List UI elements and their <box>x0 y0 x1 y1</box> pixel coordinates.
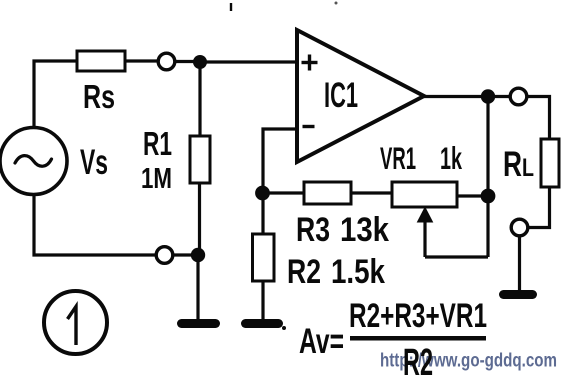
svg-text:13k: 13k <box>340 211 389 249</box>
wire: terminal to node B <box>173 253 198 256</box>
wire: node C to output terminal <box>488 95 510 98</box>
svg-text:VR1: VR1 <box>380 140 416 176</box>
wire: Vs top to Rs left <box>34 61 79 128</box>
svg-text:R2+R3+VR1: R2+R3+VR1 <box>349 297 487 335</box>
svg-text:Vs: Vs <box>80 143 108 182</box>
terminal: output bottom (open circle) <box>511 219 528 236</box>
wire: op-amp output to node C <box>424 95 488 98</box>
formula numerator: R2+R3+VR1 <box>349 297 487 335</box>
resistor R3 <box>304 182 351 204</box>
wire: terminal to node A <box>175 60 200 63</box>
scan speck (near Av) <box>282 326 286 330</box>
formula fraction bar <box>350 336 486 341</box>
wire: node A down to R1 <box>198 62 201 137</box>
label 1M (value of R1) <box>141 163 172 195</box>
source Vs <box>0 128 67 195</box>
VR1 wiper arrow <box>418 208 433 258</box>
svg-text:Rs: Rs <box>83 78 115 115</box>
wire: wiper return to output net <box>425 255 488 258</box>
ground (under R2) <box>246 319 279 328</box>
resistor R2 <box>253 234 275 281</box>
watermark http://www.go-gddq.com <box>380 351 557 372</box>
resistor Rs <box>77 51 125 71</box>
node B (junction dot, ground net) <box>191 248 205 262</box>
formula denominator: R2 <box>403 342 433 377</box>
wire: R2 to ground <box>261 281 264 320</box>
terminal: bottom input (open circle) <box>156 247 173 264</box>
pin: - (inverting input) <box>303 125 315 128</box>
wire: lower output terminal to ground <box>518 236 521 291</box>
resistor RL <box>541 139 559 187</box>
resistor R1 <box>190 136 210 183</box>
svg-text:L: L <box>522 154 534 182</box>
wire: RL bottom to lower output terminal <box>528 187 550 228</box>
svg-text:R2: R2 <box>403 342 433 377</box>
svg-text:IC1: IC1 <box>324 76 358 115</box>
figure number 1 (circled) <box>44 291 107 354</box>
node D (feedback junction dot) <box>255 186 270 201</box>
wire: node A to op-amp + input <box>200 60 297 63</box>
wire: VR1 right terminal to node E <box>457 194 488 197</box>
wire: output net vertical (node C down to wiper return) <box>486 97 489 258</box>
scan speck (top tick) <box>230 3 232 11</box>
node C (output junction dot) <box>481 89 495 103</box>
label RL <box>503 145 534 184</box>
wire: node D to R3 <box>263 191 305 194</box>
svg-text:Av=: Av= <box>299 322 344 361</box>
label R2 <box>287 253 321 291</box>
terminal: output top (open circle) <box>510 88 527 105</box>
wire: node B to ground <box>196 255 199 320</box>
label VR1 <box>380 140 416 176</box>
label R1 <box>143 125 172 162</box>
node A (junction dot at + input net) <box>193 55 207 69</box>
svg-text:1k: 1k <box>440 140 462 176</box>
wire: op-amp - input to node D <box>263 129 297 193</box>
svg-text:R3: R3 <box>296 211 330 249</box>
op-amp IC1 <box>297 30 424 162</box>
formula: Av= <box>299 322 344 361</box>
wire: output terminal to RL top <box>527 97 550 141</box>
svg-text:R: R <box>503 145 522 184</box>
svg-text:1.5k: 1.5k <box>331 253 385 291</box>
pin: + (non-inverting input) <box>302 55 318 71</box>
wire: Rs to top input terminal <box>125 59 159 62</box>
label R3 <box>296 211 330 249</box>
wire: R1 bottom to node B <box>198 183 201 255</box>
svg-text:1M: 1M <box>141 163 172 195</box>
svg-text:R2: R2 <box>287 253 321 291</box>
label 1k (value of VR1) <box>440 140 462 176</box>
node E (junction dot on output net) <box>481 189 496 204</box>
label IC1 <box>324 76 358 115</box>
svg-text:R1: R1 <box>143 125 172 162</box>
wire: R3 to VR1 <box>351 191 393 194</box>
label 1.5k (value of R2) <box>331 253 385 291</box>
label 13k (value of R3) <box>340 211 389 249</box>
ground (output side) <box>504 290 533 299</box>
wire: node D down to R2 <box>261 193 264 235</box>
label Rs <box>83 78 115 115</box>
label Vs <box>80 143 108 182</box>
terminal: top input (open circle) <box>158 53 175 70</box>
wire: Vs bottom to bottom input terminal <box>34 194 156 255</box>
ground (under R1) <box>182 319 216 328</box>
potentiometer VR1 (body) <box>392 182 457 207</box>
scan speck (top dot) <box>335 2 338 5</box>
